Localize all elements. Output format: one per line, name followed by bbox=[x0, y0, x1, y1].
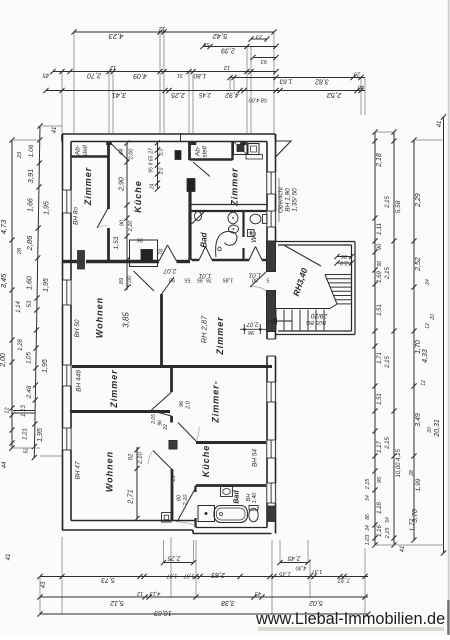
svg-text:2,83: 2,83 bbox=[211, 571, 226, 578]
svg-text:12: 12 bbox=[425, 323, 431, 329]
svg-text:1,07: 1,07 bbox=[166, 573, 178, 579]
dim chain right line 4 overall bbox=[400, 114, 446, 555]
svg-text:1,14: 1,14 bbox=[16, 301, 22, 313]
svg-text:2,15: 2,15 bbox=[365, 478, 371, 491]
svg-text:1,06: 1,06 bbox=[28, 144, 35, 157]
window left wall 4 bbox=[62, 428, 72, 450]
bath2 sink bbox=[221, 487, 233, 497]
svg-text:58: 58 bbox=[260, 97, 267, 103]
svg-text:1,18: 1,18 bbox=[377, 502, 383, 514]
bad1 basin 1 bbox=[228, 212, 238, 224]
door kitchen2 bbox=[178, 423, 199, 442]
svg-text:54: 54 bbox=[365, 495, 371, 501]
label BH80 bbox=[73, 207, 80, 225]
svg-text:43: 43 bbox=[254, 590, 261, 596]
svg-text:2,90: 2,90 bbox=[119, 177, 126, 192]
wall Abstell2 bottom bbox=[190, 158, 233, 160]
svg-text:Ab-: Ab- bbox=[75, 144, 82, 156]
svg-text:Küche: Küche bbox=[201, 445, 211, 478]
svg-text:44: 44 bbox=[2, 461, 8, 468]
stair label RH 3,40 bbox=[291, 267, 310, 298]
bad1 shower curve bbox=[216, 231, 237, 257]
svg-text:1,35/ 50: 1,35/ 50 bbox=[292, 188, 299, 212]
svg-text:86: 86 bbox=[365, 514, 371, 520]
svg-text:90: 90 bbox=[120, 219, 126, 226]
label BH160 bbox=[246, 492, 258, 504]
svg-text:2,10: 2,10 bbox=[183, 494, 189, 507]
svg-text:2,86: 2,86 bbox=[25, 235, 34, 251]
svg-text:Oberlicht: Oberlicht bbox=[278, 186, 285, 213]
wall kitchen corridor upper bbox=[188, 142, 191, 161]
svg-text:45: 45 bbox=[42, 72, 49, 78]
svg-text:2,25: 2,25 bbox=[171, 91, 186, 98]
svg-text:3,91: 3,91 bbox=[26, 169, 35, 184]
exterior right wall jamb above stair door bbox=[267, 241, 276, 272]
svg-text:96: 96 bbox=[179, 400, 185, 407]
svg-text:1,80: 1,80 bbox=[193, 72, 206, 79]
bad1 corner sink bbox=[192, 210, 207, 224]
door wall E bbox=[162, 277, 175, 294]
stair wing top wall bbox=[276, 242, 356, 246]
svg-text:1,17: 1,17 bbox=[377, 441, 383, 453]
wall G divider lower zimmer bbox=[170, 368, 173, 423]
label wohnen2 bbox=[105, 451, 115, 492]
svg-text:65: 65 bbox=[149, 156, 155, 162]
svg-text:stell: stell bbox=[202, 146, 209, 158]
svg-text:80: 80 bbox=[177, 494, 183, 501]
svg-text:10,00: 10,00 bbox=[396, 462, 402, 478]
right wall jamb beside toilet bbox=[267, 506, 276, 522]
svg-text:1,77: 1,77 bbox=[409, 518, 416, 531]
kitchen top tick cluster bbox=[149, 140, 165, 192]
bath2 west wall bbox=[194, 486, 196, 528]
exterior top wall bbox=[62, 134, 276, 142]
svg-text:Küche: Küche bbox=[133, 180, 143, 213]
svg-text:Bad: Bad bbox=[200, 231, 209, 247]
wall Abstell1 bottom bbox=[71, 155, 109, 157]
svg-text:Wohnen: Wohnen bbox=[105, 451, 115, 492]
door bath2 leaf bbox=[177, 488, 196, 526]
door from hall to stair wing bbox=[250, 272, 266, 291]
svg-text:2,15: 2,15 bbox=[385, 527, 391, 540]
chimney labels bbox=[136, 237, 164, 256]
svg-text:1,99: 1,99 bbox=[415, 478, 422, 491]
label bad1 bbox=[200, 231, 209, 247]
stair edge line bbox=[275, 308, 331, 310]
svg-text:2,18: 2,18 bbox=[376, 153, 383, 168]
window left wall 2 bbox=[62, 280, 72, 305]
svg-text:BH 47: BH 47 bbox=[75, 461, 82, 479]
window right wall 3 bbox=[266, 382, 276, 402]
right chain connectors bbox=[375, 132, 444, 545]
svg-text:24: 24 bbox=[425, 279, 431, 286]
dim chain top row A bbox=[71, 25, 276, 41]
svg-text:Zimmer-: Zimmer- bbox=[211, 380, 221, 424]
svg-text:Bad: Bad bbox=[234, 490, 241, 504]
dim chain right line 2 bbox=[385, 129, 402, 547]
svg-text:4,15: 4,15 bbox=[396, 449, 402, 461]
svg-text:40: 40 bbox=[357, 84, 364, 90]
svg-text:5,12: 5,12 bbox=[110, 599, 124, 606]
svg-text:1,51: 1,51 bbox=[377, 393, 383, 405]
wohnen2 dim 271 bbox=[126, 447, 140, 521]
svg-text:5,73: 5,73 bbox=[101, 576, 115, 583]
svg-text:16,63: 16,63 bbox=[154, 609, 172, 616]
label wc bbox=[251, 230, 258, 243]
svg-text:1,70: 1,70 bbox=[415, 340, 422, 354]
svg-text:43: 43 bbox=[41, 581, 47, 588]
svg-text:2,0: 2,0 bbox=[159, 148, 165, 156]
svg-text:2,25: 2,25 bbox=[167, 555, 181, 562]
svg-text:Ab-: Ab- bbox=[195, 145, 202, 157]
website url text bbox=[255, 610, 445, 631]
bath2 washing machine bbox=[198, 506, 215, 522]
svg-text:2,71: 2,71 bbox=[126, 489, 135, 505]
svg-text:1,85: 1,85 bbox=[222, 277, 234, 283]
svg-text:BH 50: BH 50 bbox=[74, 319, 81, 337]
svg-text:1,95: 1,95 bbox=[44, 201, 51, 215]
exterior bottom wall with bathroom block step bbox=[62, 521, 272, 534]
wall between left rooms and kitchen lower bbox=[107, 228, 110, 261]
closet2 zimmer2 bbox=[246, 144, 263, 160]
svg-text:2,0: 2,0 bbox=[339, 260, 349, 266]
svg-text:2,52: 2,52 bbox=[415, 257, 422, 272]
wall G2 lower divider bbox=[171, 469, 174, 521]
label zimmer2 bbox=[230, 167, 240, 207]
svg-text:41: 41 bbox=[6, 554, 12, 561]
svg-text:41: 41 bbox=[400, 546, 406, 553]
label BH47 bbox=[75, 461, 82, 479]
flue box corridor bbox=[187, 179, 195, 192]
svg-text:1,95: 1,95 bbox=[42, 359, 49, 373]
svg-text:RH 2,87: RH 2,87 bbox=[200, 315, 209, 343]
svg-text:BH 446: BH 446 bbox=[76, 370, 83, 392]
svg-text:29/20: 29/20 bbox=[310, 312, 328, 319]
exterior right wall jamb below stair door bbox=[267, 291, 276, 332]
svg-text:WC: WC bbox=[251, 230, 258, 243]
svg-text:96: 96 bbox=[340, 253, 347, 259]
svg-text:95: 95 bbox=[377, 476, 383, 483]
door corridor bbox=[193, 162, 210, 177]
svg-text:2,15: 2,15 bbox=[385, 196, 391, 209]
exterior left wall bbox=[63, 134, 72, 530]
svg-text:1,95: 1,95 bbox=[43, 278, 50, 292]
svg-text:2,00: 2,00 bbox=[0, 353, 7, 368]
svg-text:BüS BG: BüS BG bbox=[305, 319, 326, 325]
svg-text:89: 89 bbox=[119, 278, 125, 284]
dim chain right line 3 bbox=[409, 137, 436, 542]
door bad V bbox=[199, 247, 212, 261]
kitchen vertical dim line bbox=[113, 140, 135, 290]
svg-text:28: 28 bbox=[409, 470, 415, 477]
svg-text:93: 93 bbox=[260, 58, 267, 64]
window left wall 3 bbox=[62, 365, 72, 386]
wall H horizontal wohnen2 top bbox=[70, 410, 170, 413]
stair upper flight treads bbox=[325, 275, 352, 304]
scan edge artifact right bbox=[447, 0, 449, 635]
svg-text:1,11: 1,11 bbox=[376, 223, 383, 236]
dim chain right line 1 bbox=[365, 129, 383, 547]
stair stringer bbox=[325, 275, 337, 309]
wall kitchen corridor lower / bath west bbox=[188, 191, 191, 260]
svg-text:52: 52 bbox=[24, 447, 30, 453]
svg-text:1,28: 1,28 bbox=[18, 339, 24, 351]
svg-text:4,09: 4,09 bbox=[133, 72, 147, 79]
main middle wall D left bbox=[62, 260, 190, 263]
bath2 tub bbox=[214, 506, 248, 523]
svg-text:44: 44 bbox=[119, 149, 125, 155]
svg-text:2,15: 2,15 bbox=[385, 267, 391, 280]
svg-text:12: 12 bbox=[5, 407, 11, 413]
svg-text:2,07: 2,07 bbox=[163, 267, 177, 274]
wall G jamb block bbox=[169, 441, 177, 450]
svg-text:2,45: 2,45 bbox=[287, 555, 301, 562]
door bath2 labels bbox=[177, 494, 190, 507]
wall between left rooms and kitchen upper bbox=[107, 142, 110, 210]
dim chain left line 2 (tilted) bbox=[2, 123, 58, 468]
svg-text:27: 27 bbox=[149, 148, 155, 155]
svg-text:Zimmer: Zimmer bbox=[215, 316, 225, 356]
wall kueche2 top bbox=[196, 441, 267, 444]
label oberlicht bbox=[278, 178, 299, 222]
svg-text:Zimmer: Zimmer bbox=[230, 167, 240, 207]
wc toilet bbox=[250, 214, 267, 224]
top wall joint line bbox=[180, 133, 182, 142]
svg-text:4,23: 4,23 bbox=[108, 32, 123, 41]
wohnen appliance box bbox=[162, 513, 172, 523]
svg-text:1,69: 1,69 bbox=[377, 271, 383, 283]
svg-text:76: 76 bbox=[205, 277, 212, 283]
svg-text:54: 54 bbox=[385, 517, 391, 523]
svg-text:1,66: 1,66 bbox=[28, 198, 35, 212]
svg-text:1,60: 1,60 bbox=[27, 276, 34, 290]
svg-text:2,00: 2,00 bbox=[129, 148, 135, 161]
svg-text:2,0: 2,0 bbox=[186, 400, 192, 410]
wall D door labels bbox=[163, 267, 261, 279]
svg-text:4,73: 4,73 bbox=[0, 219, 8, 234]
label kueche2 bbox=[201, 445, 211, 478]
svg-text:Zimmer: Zimmer bbox=[109, 369, 119, 409]
stair wing roof diagonal bbox=[285, 246, 322, 267]
dim chain left line 1 bbox=[0, 137, 24, 450]
bath bottom wall bbox=[192, 259, 268, 261]
wall junction blob closet bbox=[241, 142, 247, 145]
window right wall 4 bbox=[266, 440, 276, 458]
svg-text:23: 23 bbox=[255, 34, 263, 40]
svg-text:2,0: 2,0 bbox=[159, 167, 165, 175]
svg-text:3,49: 3,49 bbox=[415, 413, 422, 427]
svg-text:30: 30 bbox=[377, 260, 383, 267]
dim extension lines top bbox=[62, 32, 365, 133]
svg-text:1,07: 1,07 bbox=[183, 573, 195, 579]
door in right wall below wing bbox=[263, 339, 277, 356]
dim extension lines bottom bbox=[40, 537, 365, 614]
wall Abstell2 Zimmer2 divider bbox=[231, 142, 233, 161]
svg-text:53: 53 bbox=[27, 300, 33, 307]
svg-text:2,15: 2,15 bbox=[385, 437, 391, 450]
svg-text:1,71: 1,71 bbox=[377, 352, 383, 364]
wohnen middle dim bbox=[122, 312, 131, 328]
left chain connectors bbox=[12, 126, 62, 456]
svg-text:1,53: 1,53 bbox=[113, 236, 120, 249]
label kueche1 bbox=[133, 180, 143, 213]
zimmer right wall door dims bbox=[240, 320, 266, 335]
svg-text:12: 12 bbox=[110, 64, 116, 70]
door wall G labels bbox=[151, 400, 192, 431]
label bad2 bbox=[234, 490, 241, 504]
svg-text:20: 20 bbox=[427, 427, 433, 434]
svg-text:2,52: 2,52 bbox=[326, 91, 342, 100]
wall Zimmer2 bottom / bath top bbox=[190, 205, 268, 212]
svg-text:2,15: 2,15 bbox=[385, 356, 391, 369]
entrance canopy triangle top right bbox=[276, 141, 292, 157]
label zimmer1 bbox=[83, 167, 93, 207]
svg-text:2,10: 2,10 bbox=[138, 452, 144, 465]
svg-text:3,85: 3,85 bbox=[122, 312, 131, 328]
svg-text:90: 90 bbox=[377, 243, 383, 250]
door corridor V in wall D bbox=[159, 245, 177, 261]
dim chain bottom row G bbox=[37, 590, 368, 606]
svg-text:2,29: 2,29 bbox=[415, 193, 422, 208]
svg-text:BH 54: BH 54 bbox=[252, 449, 259, 467]
dim chain bottom row F bbox=[37, 568, 368, 588]
svg-text:1,35: 1,35 bbox=[279, 571, 291, 577]
svg-text:12: 12 bbox=[158, 25, 165, 31]
svg-text:20: 20 bbox=[430, 314, 436, 321]
svg-text:1,95: 1,95 bbox=[37, 428, 44, 442]
svg-text:78: 78 bbox=[159, 248, 165, 255]
closet hatched zimmer2 bbox=[234, 142, 248, 155]
svg-text:95: 95 bbox=[149, 167, 155, 173]
svg-text:59: 59 bbox=[203, 41, 209, 47]
label zimmer3 bbox=[109, 369, 119, 409]
wall bad wc divider bbox=[242, 212, 244, 260]
svg-text:12: 12 bbox=[137, 590, 143, 596]
svg-text:2,07: 2,07 bbox=[246, 320, 259, 326]
bottom left 41 label bbox=[6, 554, 12, 561]
svg-text:2,45: 2,45 bbox=[199, 91, 212, 97]
svg-text:31: 31 bbox=[177, 72, 183, 78]
svg-text:19: 19 bbox=[171, 475, 177, 481]
left chain 12 marker bbox=[5, 407, 35, 413]
svg-text:4,00: 4,00 bbox=[248, 97, 260, 103]
svg-text:BH 8o: BH 8o bbox=[73, 207, 80, 225]
door wohnen2 labels bbox=[129, 452, 178, 482]
stair wing right wall bbox=[352, 242, 356, 335]
door wohnen1 leaf bbox=[134, 271, 155, 291]
label zimmer4 bbox=[211, 380, 221, 424]
svg-text:Zimmer: Zimmer bbox=[83, 167, 93, 207]
svg-text:96: 96 bbox=[247, 329, 254, 335]
svg-text:20,31: 20,31 bbox=[434, 419, 441, 438]
label rh287 zimmer bbox=[200, 315, 226, 356]
svg-text:55: 55 bbox=[184, 277, 191, 283]
svg-text:12: 12 bbox=[421, 380, 427, 386]
label BH50 bbox=[74, 319, 81, 337]
dim chain top row D bbox=[43, 84, 365, 103]
svg-text:41: 41 bbox=[52, 127, 58, 134]
stair lower flight treads bbox=[276, 310, 324, 332]
bad1 basin 2 bbox=[229, 225, 239, 233]
svg-text:8: 8 bbox=[149, 162, 155, 165]
bath2 toilet bbox=[249, 506, 258, 522]
label BH446 bbox=[76, 370, 83, 392]
svg-text:23: 23 bbox=[17, 151, 23, 159]
flue box abstell2 bbox=[175, 151, 181, 160]
entrance arrow bbox=[269, 318, 292, 325]
svg-text:BH 1,90: BH 1,90 bbox=[285, 188, 292, 212]
svg-text:3,38: 3,38 bbox=[221, 599, 235, 606]
dim chain bottom row E2 bbox=[277, 555, 310, 571]
wc cistern bbox=[248, 230, 255, 237]
label wohnen1 bbox=[95, 297, 105, 338]
stair wing bottom wall bbox=[276, 331, 356, 335]
svg-text:28: 28 bbox=[17, 247, 23, 255]
svg-text:20: 20 bbox=[353, 71, 361, 77]
svg-text:95: 95 bbox=[196, 277, 203, 283]
stair wing small dims bbox=[334, 253, 354, 266]
svg-text:22: 22 bbox=[163, 424, 169, 431]
dim chain top row B bbox=[200, 34, 278, 65]
svg-text:1,21: 1,21 bbox=[23, 428, 29, 440]
door wall G V bbox=[151, 392, 172, 416]
svg-text:12: 12 bbox=[224, 64, 230, 70]
wall D door jamb bbox=[78, 251, 85, 270]
svg-text:24: 24 bbox=[365, 525, 371, 532]
wall junction blob B bbox=[107, 142, 112, 145]
svg-text:1,37: 1,37 bbox=[311, 568, 323, 574]
svg-text:1,16: 1,16 bbox=[377, 525, 383, 537]
svg-text:2,10: 2,10 bbox=[128, 220, 134, 233]
wall junction blob C bbox=[190, 142, 196, 145]
svg-text:80: 80 bbox=[251, 277, 258, 283]
svg-text:stell: stell bbox=[82, 145, 89, 157]
dim chain bottom row H overall bbox=[37, 609, 370, 617]
svg-text:4,30: 4,30 bbox=[295, 565, 307, 571]
window left wall 1 bbox=[62, 190, 72, 213]
dim chain top row C bbox=[42, 64, 279, 79]
wall Wohnen Zimmer divider E bbox=[160, 294, 163, 367]
svg-text:4,13: 4,13 bbox=[149, 590, 161, 596]
svg-text:2,48: 2,48 bbox=[26, 385, 33, 399]
svg-text:5,02: 5,02 bbox=[309, 599, 323, 606]
svg-text:92: 92 bbox=[129, 453, 135, 460]
svg-text:1,05: 1,05 bbox=[27, 352, 33, 364]
wall F horizontal bbox=[62, 365, 272, 368]
door left room bbox=[97, 209, 108, 228]
door wohnen2 bbox=[148, 451, 172, 470]
door kitchen top left diagonal bbox=[110, 143, 129, 162]
svg-text:24: 24 bbox=[150, 184, 156, 191]
dim chain top row C2 bbox=[227, 71, 365, 85]
svg-text:Wohnen: Wohnen bbox=[95, 297, 105, 338]
svg-text:www.Liebal-Immobilien.de: www.Liebal-Immobilien.de bbox=[255, 610, 445, 628]
svg-text:1,40: 1,40 bbox=[252, 492, 258, 504]
svg-text:2,05: 2,05 bbox=[151, 414, 157, 425]
chimney stove block kitchen bbox=[130, 240, 158, 267]
window right wall 5 bbox=[266, 483, 276, 503]
svg-text:7,37: 7,37 bbox=[337, 576, 350, 583]
svg-text:4,92: 4,92 bbox=[225, 91, 239, 98]
svg-text:96: 96 bbox=[136, 237, 143, 243]
svg-text:5,42: 5,42 bbox=[212, 32, 227, 41]
svg-text:5,58: 5,58 bbox=[395, 200, 402, 213]
exterior right wall upper bbox=[267, 134, 276, 241]
svg-text:41: 41 bbox=[437, 121, 443, 128]
svg-text:2,70: 2,70 bbox=[87, 72, 102, 79]
svg-text:1,51: 1,51 bbox=[377, 304, 383, 316]
window right wall 1 bbox=[266, 172, 276, 194]
